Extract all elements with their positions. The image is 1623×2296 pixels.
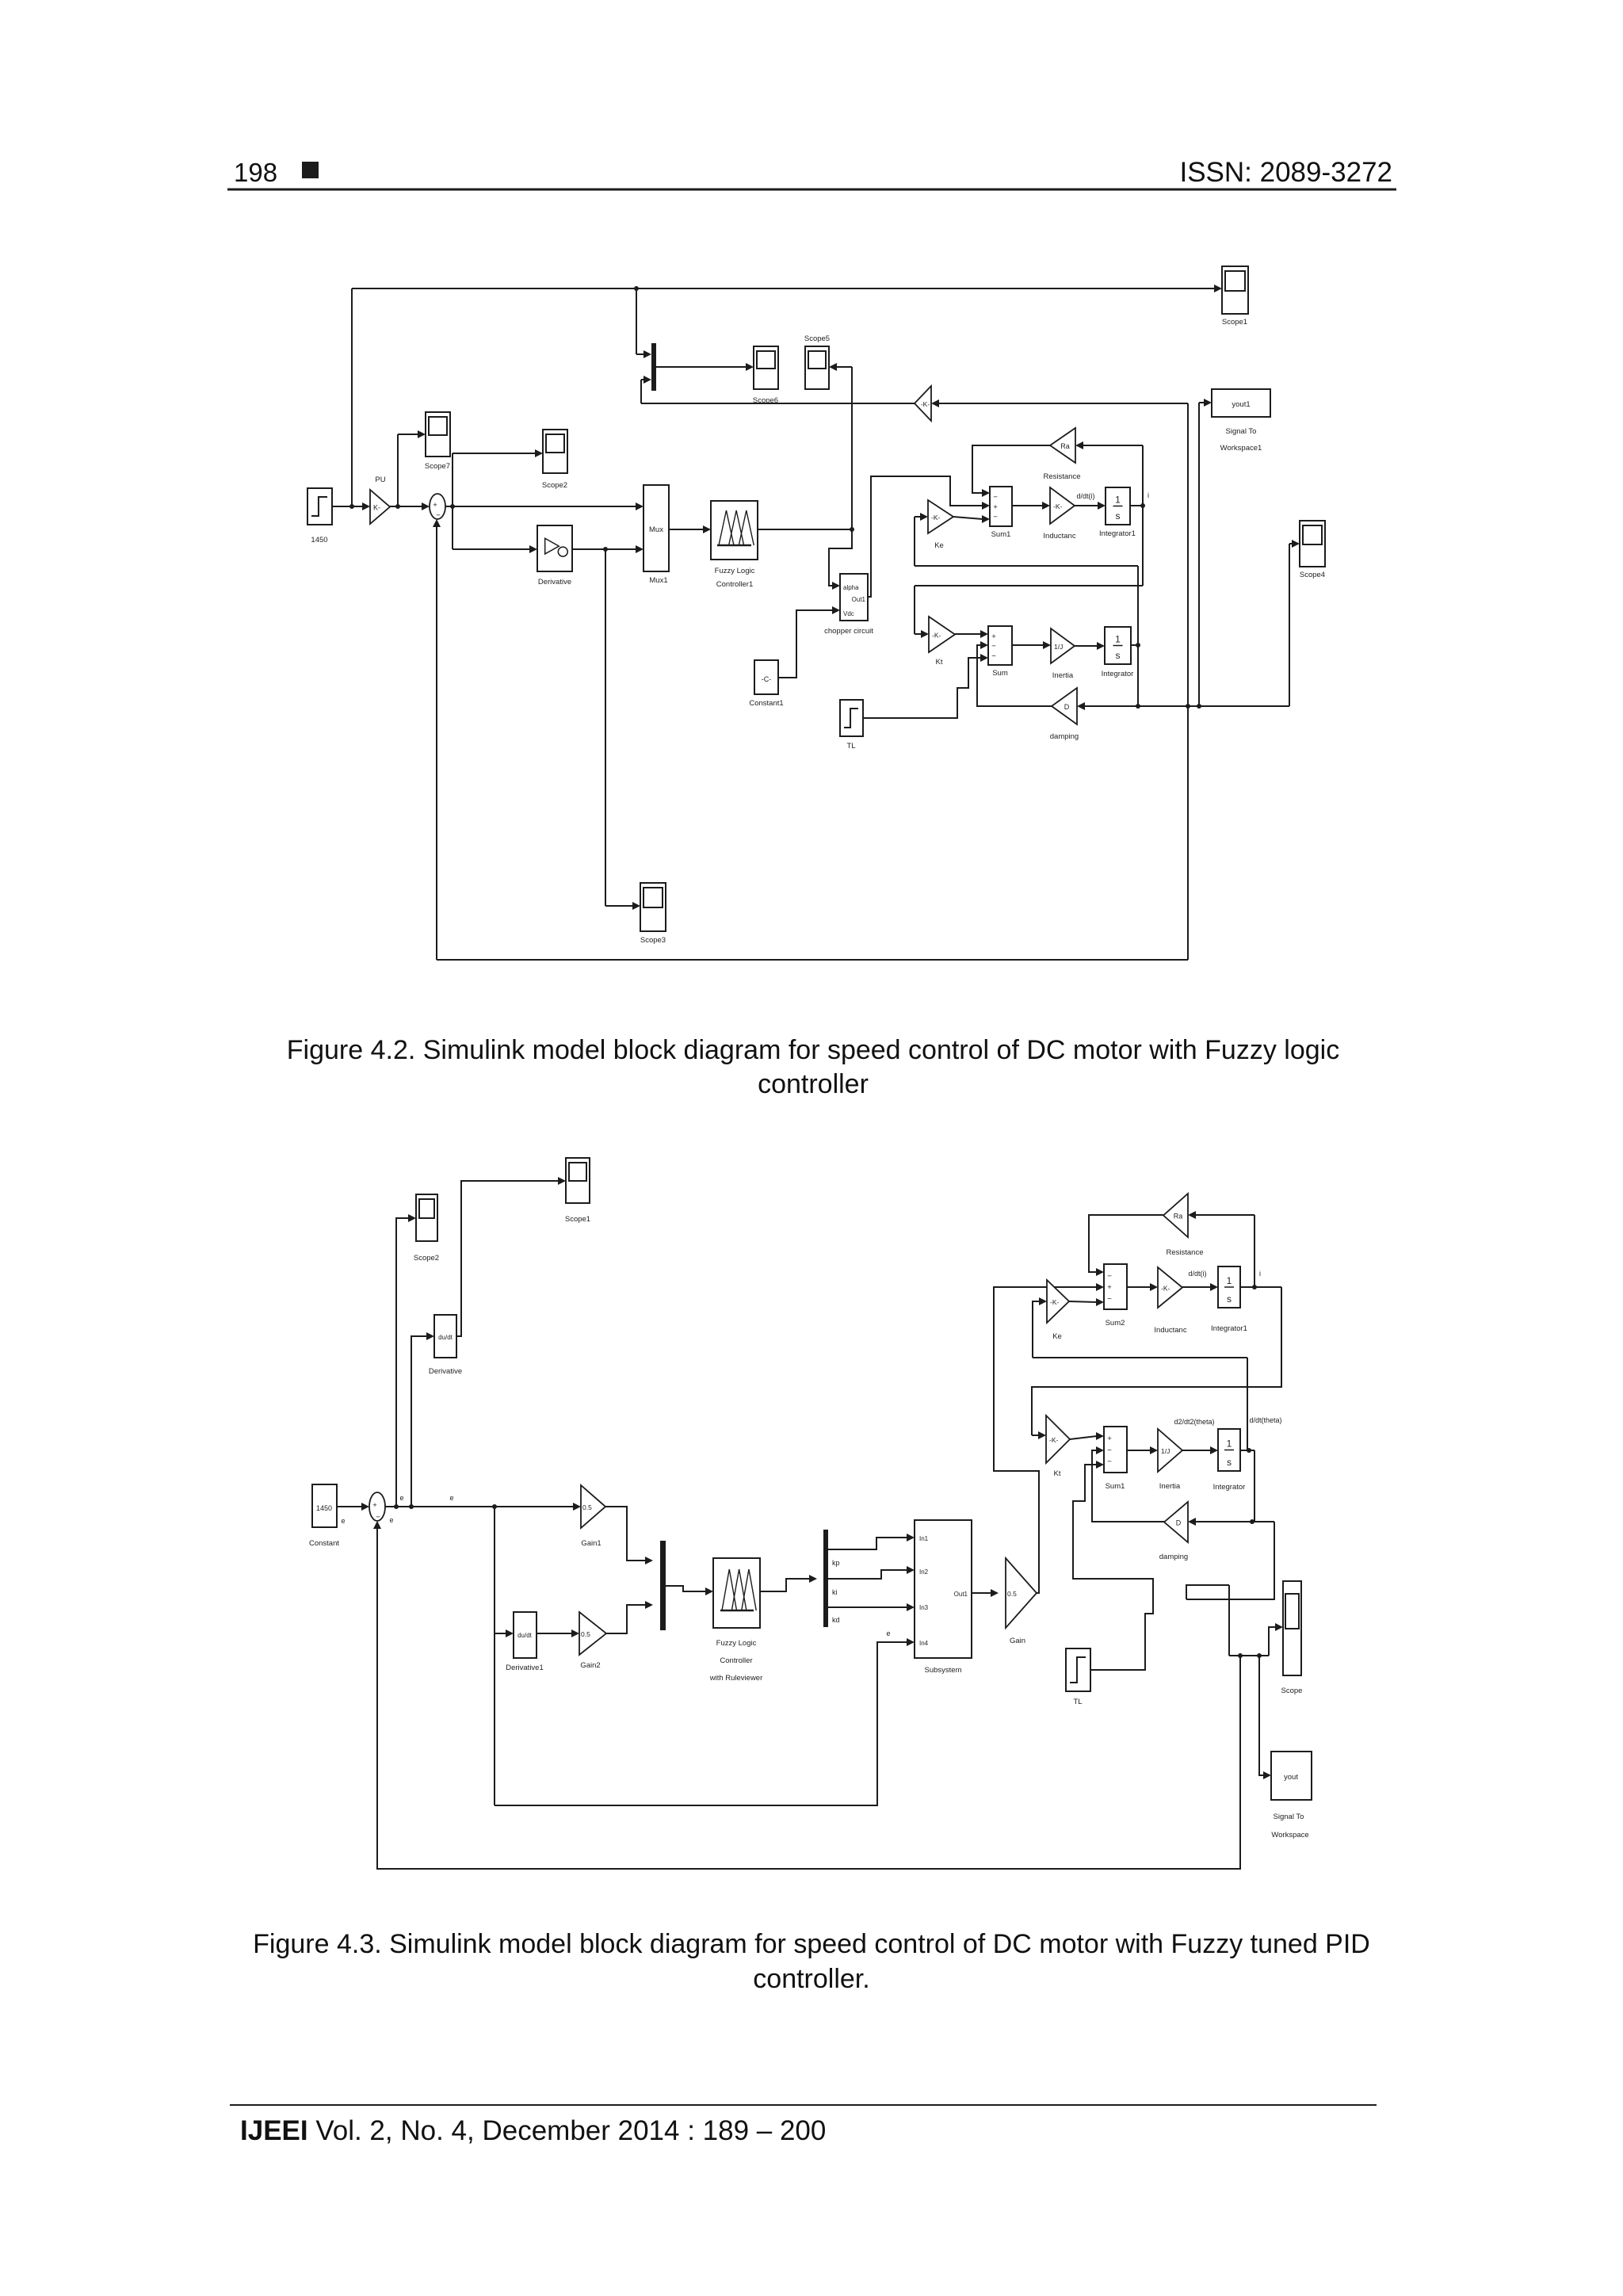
svg-text:Gain1: Gain1	[581, 1539, 601, 1548]
current riser to Ra and drop to line B	[1142, 445, 1144, 586]
svg-text:Scope5: Scope5	[804, 334, 830, 343]
block yout1 Signal To Workspace1	[1212, 389, 1270, 417]
block Integrator	[1105, 627, 1131, 664]
block Fuzzy Logic Controller1	[711, 501, 758, 560]
svg-text:+: +	[1107, 1283, 1112, 1292]
sum junction (fig2)	[369, 1492, 385, 1521]
wire Gain2 to mux input 2 (fig2)	[606, 1605, 646, 1633]
wire Integrator output to speed junction	[1131, 644, 1138, 646]
wire top rail down into mux input 1	[636, 288, 637, 354]
svg-text:Fuzzy Logic: Fuzzy Logic	[715, 567, 755, 575]
wire FLC to demux (fig2)	[760, 1579, 810, 1591]
svg-text:−: −	[1107, 1457, 1112, 1466]
svg-text:Ke: Ke	[1052, 1332, 1062, 1341]
tap up to Scope2 (fig2)	[396, 1218, 410, 1507]
wire Subsystem Out1 to Gain (fig2)	[972, 1592, 991, 1594]
svg-text:with Ruleviewer: with Ruleviewer	[709, 1674, 763, 1683]
gain PU	[370, 490, 390, 524]
wire Ra output to Sum1 input 1	[972, 445, 1050, 493]
wire Constant to sum (fig2)	[337, 1506, 361, 1507]
current riser to Ra (fig2)	[1254, 1215, 1255, 1287]
svg-text:Scope3: Scope3	[640, 936, 666, 945]
wire down to Scope3	[605, 549, 606, 906]
svg-text:1/J: 1/J	[1161, 1447, 1170, 1455]
svg-text:−: −	[1107, 1294, 1112, 1303]
block Integrator1 (fig2)	[1218, 1266, 1240, 1308]
wire Inertia to Integrator (fig2)	[1182, 1450, 1211, 1451]
svg-text:Derivative: Derivative	[429, 1367, 462, 1376]
wire Ra output to Sum2 input 1 (fig2)	[1089, 1215, 1163, 1272]
svg-text:Figure 4.2. Simulink model blo: Figure 4.2. Simulink model block diagram…	[287, 1035, 1339, 1065]
svg-text:Inductanc: Inductanc	[1043, 532, 1075, 541]
wire Derivative1 to Gain2 (fig2)	[537, 1633, 572, 1634]
svg-text:Ra: Ra	[1060, 442, 1070, 450]
svg-text:ki: ki	[832, 1588, 838, 1596]
wire Inertia to Integrator	[1075, 645, 1098, 647]
gain damping D (left pointing)	[1052, 688, 1077, 724]
scope Scope6	[754, 346, 778, 389]
svg-text:Resistance: Resistance	[1167, 1248, 1204, 1257]
scope Scope3	[640, 883, 666, 931]
block TL (fig2)	[1066, 1648, 1090, 1691]
svg-text:D: D	[1064, 703, 1070, 711]
wire Inductanc to Integrator1 (fig2)	[1182, 1286, 1211, 1288]
svg-text:-K-: -K-	[921, 400, 930, 408]
wire reference feedback up to top rail	[351, 288, 353, 506]
svg-text:+: +	[372, 1501, 377, 1510]
svg-text:du/dt: du/dt	[438, 1334, 453, 1341]
tap up to Derivative (fig2)	[411, 1336, 428, 1507]
footer rule	[230, 2104, 1377, 2106]
wire Kt to Sum input 1	[955, 633, 980, 635]
wire demux kp to In1	[828, 1538, 908, 1549]
speed riser to -K- gain rail and bottom feedback	[1187, 403, 1189, 960]
svg-text:du/dt: du/dt	[517, 1632, 533, 1639]
speed line A	[915, 565, 1138, 567]
svg-text:Workspace: Workspace	[1271, 1831, 1308, 1839]
svg-text:In1: In1	[919, 1535, 929, 1542]
svg-text:e: e	[449, 1494, 453, 1502]
svg-text:Gain2: Gain2	[580, 1661, 600, 1670]
wire PU to sum junction	[390, 506, 422, 507]
svg-text:Integrator: Integrator	[1213, 1483, 1246, 1492]
svg-text:Workspace1: Workspace1	[1220, 444, 1262, 453]
svg-text:1: 1	[1115, 634, 1121, 645]
error wire to Gain1 with tap junctions (fig2)	[385, 1506, 573, 1507]
wire into Scope5 (from right)	[837, 366, 852, 368]
flag rectangle on distribution wire (fig2)	[1186, 1585, 1229, 1599]
block TL (load torque step)	[840, 700, 863, 736]
scope Scope5	[805, 346, 829, 389]
svg-text:-K-: -K-	[931, 514, 941, 521]
sum Sum (torque sum)	[988, 626, 1012, 665]
svg-text:+: +	[1107, 1435, 1112, 1443]
svg-text:Out1: Out1	[852, 596, 866, 603]
svg-text:controller: controller	[758, 1069, 869, 1099]
wire Derivative to Scope1 (fig2)	[456, 1181, 559, 1336]
svg-text:Mux1: Mux1	[649, 576, 667, 585]
wire to Scope (fig2)	[1269, 1627, 1277, 1656]
wire Integrator output, speed junction (fig2)	[1240, 1450, 1254, 1451]
svg-text:Inductanc: Inductanc	[1154, 1326, 1186, 1335]
scope Scope2 (fig2)	[416, 1194, 437, 1241]
wire damping output to Sum input 2	[977, 645, 1052, 706]
scope Scope1	[1222, 266, 1248, 314]
svg-text:Scope2: Scope2	[414, 1254, 439, 1263]
svg-text:e: e	[886, 1629, 890, 1637]
mux thick bar (fig2)	[660, 1541, 666, 1630]
svg-text:Scope7: Scope7	[425, 462, 450, 471]
gain Ra Resistance (left pointing)	[1050, 428, 1075, 463]
wire Derivative to Mux1 with Scope3 tap junction	[572, 548, 637, 550]
speed rail wire to -K- gain output	[641, 403, 915, 404]
bottom feedback loop (fig2)	[377, 1527, 1240, 1869]
svg-text:kd: kd	[832, 1616, 840, 1624]
svg-text:Sum: Sum	[992, 669, 1008, 678]
wire Sum1 to Inertia (fig2)	[1127, 1450, 1151, 1451]
svg-text:s: s	[1227, 1293, 1232, 1305]
svg-text:-K-: -K-	[1053, 502, 1063, 510]
svg-text:chopper circuit: chopper circuit	[824, 627, 873, 636]
svg-text:−: −	[993, 513, 998, 521]
svg-text:i: i	[1148, 491, 1149, 499]
gain Ra Resistance (fig2, left pointing)	[1163, 1194, 1188, 1237]
block Subsystem	[915, 1520, 972, 1658]
svg-text:198: 198	[234, 158, 277, 187]
svg-text:Scope1: Scope1	[1222, 318, 1247, 327]
gain damping D (fig2, left pointing)	[1164, 1502, 1188, 1542]
demux thick bar (fig2)	[823, 1530, 828, 1627]
svg-text:-K-: -K-	[1049, 1436, 1059, 1444]
gain Gain2 0.5 (fig2)	[579, 1612, 606, 1655]
svg-text:Subsystem: Subsystem	[925, 1666, 962, 1675]
block Fuzzy Logic Controller with Ruleviewer	[713, 1558, 760, 1628]
current line B to Kt	[915, 585, 1143, 586]
svg-text:−: −	[991, 642, 996, 651]
svg-text:Sum1: Sum1	[991, 530, 1011, 539]
speed drop right segment to distribution (fig2)	[1186, 1522, 1274, 1599]
svg-text:Ra: Ra	[1174, 1213, 1183, 1221]
wire step to gain PU with junction	[332, 506, 362, 507]
wire TL to Sum input 3 (staircase)	[863, 658, 980, 718]
wire mux to Fuzzy Logic Controller (fig2)	[666, 1586, 707, 1591]
damping rail (speed) with junctions	[1084, 705, 1289, 707]
svg-text:PU: PU	[375, 476, 385, 484]
svg-text:Inertia: Inertia	[1159, 1482, 1181, 1491]
wire damping rail up to Scope4	[1289, 544, 1290, 706]
sum junction (speed error)	[430, 494, 445, 519]
svg-text:Sum1: Sum1	[1106, 1482, 1125, 1491]
svg-text:+: +	[993, 503, 998, 512]
svg-text:−: −	[993, 493, 998, 502]
wire current to Ra input	[1082, 445, 1143, 446]
svg-text:Out1: Out1	[954, 1591, 968, 1598]
svg-text:kp: kp	[832, 1559, 840, 1567]
wire speed tap to yout1	[1199, 402, 1205, 403]
gain Gain1 0.5 (fig2)	[581, 1485, 605, 1528]
block Derivative1 du/dt (fig2)	[514, 1612, 537, 1658]
svg-text:Scope2: Scope2	[542, 481, 567, 490]
block chopper circuit	[840, 574, 868, 621]
svg-text:e: e	[389, 1516, 393, 1524]
wire Gain up to Sum2 + input (fig2)	[994, 1287, 1097, 1593]
gain Gain 0.5 (fig2)	[1006, 1558, 1037, 1628]
svg-text:Integrator1: Integrator1	[1211, 1324, 1247, 1333]
svg-text:yout1: yout1	[1232, 400, 1250, 409]
wire Sum1 to Inductanc	[1012, 505, 1043, 506]
block Integrator1	[1106, 487, 1130, 525]
svg-text:Figure 4.3. Simulink model blo: Figure 4.3. Simulink model block diagram…	[253, 1929, 1370, 1959]
svg-text:1450: 1450	[311, 536, 327, 544]
svg-text:s: s	[1116, 650, 1121, 661]
wire mux to Scope6	[656, 366, 747, 368]
svg-text:e: e	[341, 1517, 345, 1525]
scope Scope4	[1300, 521, 1325, 567]
svg-text:K-: K-	[373, 504, 380, 512]
svg-text:-C-: -C-	[762, 675, 772, 683]
svg-text:1/J: 1/J	[1054, 643, 1063, 651]
svg-text:ISSN: 2089-3272: ISSN: 2089-3272	[1179, 157, 1392, 188]
svg-text:Kt: Kt	[936, 658, 943, 667]
svg-text:d/dt(theta): d/dt(theta)	[1249, 1416, 1281, 1424]
svg-text:Signal To: Signal To	[1226, 427, 1257, 436]
wire chopper Out1 up and to Sum1 input 2	[868, 476, 983, 597]
svg-text:-K-: -K-	[1050, 1298, 1060, 1306]
svg-text:e: e	[399, 1494, 403, 1502]
gain -K- (left pointing, display gain)	[915, 386, 931, 421]
block Constant1	[754, 660, 778, 694]
svg-text:-K-: -K-	[932, 632, 941, 640]
svg-text:Controller: Controller	[720, 1656, 752, 1665]
svg-text:In4: In4	[919, 1640, 929, 1647]
svg-text:Scope4: Scope4	[1300, 571, 1325, 579]
svg-text:d/dt(i): d/dt(i)	[1188, 1270, 1206, 1278]
wire sum output to Mux1 with tap junction	[445, 506, 637, 507]
block Derivative du/dt (fig2)	[434, 1315, 456, 1358]
svg-text:Ke: Ke	[934, 541, 944, 550]
svg-text:Constant1: Constant1	[749, 699, 783, 708]
speed riser to yout1	[1198, 403, 1200, 706]
svg-text:Sum2: Sum2	[1106, 1319, 1125, 1328]
svg-text:-K-: -K-	[1161, 1285, 1170, 1293]
wire damping output to Sum1 input 2 (fig2)	[1092, 1450, 1164, 1522]
wire speed rail into mux input 2	[640, 380, 642, 403]
svg-text:s: s	[1116, 510, 1121, 521]
wire Ke to Sum2 input 3 (fig2)	[1069, 1301, 1097, 1302]
svg-text:Vdc: Vdc	[843, 610, 854, 617]
wire FLC1 down to chopper alpha input	[829, 529, 852, 586]
svg-text:Signal To: Signal To	[1274, 1813, 1304, 1821]
wire Constant1 to chopper Vdc input	[778, 610, 832, 678]
error rail to In4 (fig2)	[495, 1642, 908, 1805]
wire Inductanc to Integrator1	[1075, 505, 1098, 506]
wire tap up to Scope7	[397, 434, 399, 506]
svg-text:yout: yout	[1284, 1773, 1298, 1782]
gain Kt (fig2)	[1046, 1415, 1070, 1463]
mux (thick bar) feeding Scope6	[651, 343, 656, 391]
distribution rail (fig2)	[1229, 1655, 1269, 1656]
svg-text:−: −	[991, 651, 996, 660]
gain Ke (fig2)	[1047, 1280, 1069, 1323]
speed riser from integrator to line A and down to damping rail	[1137, 566, 1139, 706]
gain Inertia 1/J (fig2)	[1158, 1429, 1182, 1472]
svg-text:In3: In3	[919, 1604, 929, 1611]
gain Inductanc (fig2)	[1158, 1267, 1182, 1308]
svg-text:Inertia: Inertia	[1052, 671, 1074, 680]
step source 1450	[307, 488, 332, 525]
tap wire up to Scope2 and down to Derivative	[452, 453, 453, 549]
sum Sum1	[990, 487, 1012, 526]
svg-text:−: −	[436, 511, 441, 520]
wire speed line A to Ke input	[914, 517, 915, 566]
svg-text:TL: TL	[1073, 1698, 1082, 1706]
block yout Signal To Workspace (fig2)	[1271, 1752, 1312, 1800]
svg-text:Derivative1: Derivative1	[506, 1664, 544, 1672]
svg-text:1: 1	[1227, 1438, 1232, 1450]
svg-text:Scope: Scope	[1281, 1687, 1303, 1695]
svg-text:Scope1: Scope1	[565, 1215, 590, 1224]
svg-text:1: 1	[1115, 495, 1121, 506]
gain Ke (back emf)	[928, 500, 953, 533]
svg-text:0.5: 0.5	[1007, 1590, 1017, 1598]
sum Sum1 (fig2)	[1104, 1427, 1127, 1473]
block Derivative	[537, 525, 572, 571]
scope Scope2	[543, 430, 567, 473]
bottom feedback loop of figure 4.2	[437, 959, 1188, 961]
svg-text:Constant: Constant	[309, 1539, 339, 1548]
sum Sum2 (fig2)	[1104, 1264, 1127, 1309]
svg-text:d/dt(i): d/dt(i)	[1076, 492, 1094, 500]
scope Scope1 (fig2)	[566, 1158, 590, 1203]
svg-text:Resistance: Resistance	[1044, 472, 1081, 481]
svg-text:s: s	[1227, 1457, 1232, 1468]
svg-text:Controller1: Controller1	[716, 580, 753, 589]
error tap down to Derivative1 and In4 rail (fig2)	[494, 1507, 495, 1805]
svg-text:damping: damping	[1050, 732, 1079, 741]
svg-text:D: D	[1176, 1519, 1182, 1527]
gain Inertia 1/J	[1051, 628, 1075, 663]
scope Scope (fig2, tall)	[1283, 1581, 1301, 1675]
svg-text:−: −	[1107, 1446, 1112, 1455]
damping rail (fig2)	[1194, 1521, 1274, 1522]
speed drop to damping rail (fig2)	[1254, 1450, 1255, 1522]
svg-text:1450: 1450	[316, 1504, 332, 1512]
wire Sum2 to Inductanc (fig2)	[1127, 1286, 1151, 1288]
svg-text:1: 1	[1227, 1275, 1232, 1286]
mux Mux1	[643, 485, 669, 571]
block Constant 1450 (fig2)	[312, 1484, 337, 1527]
page header: black square bullet	[302, 162, 319, 178]
wire FLC1 output to Scope5 riser junction	[758, 529, 852, 530]
svg-text:IJEEI Vol. 2, No. 4, December: IJEEI Vol. 2, No. 4, December 2014 : 189…	[240, 2115, 826, 2146]
gain Inductanc	[1050, 487, 1075, 524]
svg-text:d2/dt2(theta): d2/dt2(theta)	[1174, 1418, 1214, 1426]
svg-text:+: +	[433, 501, 437, 510]
wire Integrator1 output with current junction	[1130, 505, 1143, 506]
svg-text:In2: In2	[919, 1568, 929, 1576]
svg-text:Gain: Gain	[1010, 1637, 1025, 1645]
svg-text:Fuzzy Logic: Fuzzy Logic	[716, 1639, 757, 1648]
svg-text:−: −	[1107, 1272, 1112, 1281]
wire demux kd to In3	[828, 1606, 908, 1608]
svg-text:Derivative: Derivative	[538, 578, 571, 586]
svg-text:Integrator: Integrator	[1102, 670, 1134, 678]
scope Scope7	[426, 412, 450, 457]
page header rule	[227, 189, 1396, 191]
gain Kt (torque constant)	[929, 617, 955, 652]
svg-text:Kt: Kt	[1054, 1469, 1061, 1478]
wire TL to Sum1 input 3 (staircase, fig2)	[1073, 1465, 1153, 1670]
wire Kt to Sum1 input 1 (fig2)	[1070, 1436, 1097, 1439]
svg-text:−: −	[376, 1513, 380, 1522]
wire to yout (fig2)	[1259, 1656, 1265, 1775]
svg-text:0.5: 0.5	[582, 1503, 592, 1511]
svg-text:TL: TL	[846, 742, 855, 751]
svg-text:Integrator1: Integrator1	[1099, 529, 1136, 538]
wire Mux1 to Fuzzy Logic Controller1	[669, 529, 704, 530]
svg-text:alpha: alpha	[843, 584, 859, 591]
wire Integrator1 output, i junction (fig2)	[1240, 1286, 1281, 1288]
wire Sum to Inertia	[1012, 644, 1043, 646]
top rail wire to Scope1	[352, 288, 1215, 289]
wire demux ki to In2	[828, 1570, 908, 1579]
wire Gain1 to mux input 1 (fig2)	[605, 1507, 646, 1561]
svg-text:damping: damping	[1159, 1553, 1188, 1561]
svg-text:i: i	[1259, 1270, 1261, 1278]
wire speed to Ke input (fig2)	[1033, 1301, 1040, 1358]
svg-text:Mux: Mux	[649, 525, 663, 534]
svg-text:0.5: 0.5	[581, 1630, 590, 1638]
wire current to Ra input (fig2)	[1194, 1214, 1254, 1216]
wire speed tap into -K- gain	[939, 403, 1188, 404]
wire Ke output to Sum1 input 3	[953, 517, 983, 519]
svg-text:controller.: controller.	[753, 1964, 869, 1994]
current drop and line to Kt (fig2)	[1032, 1287, 1281, 1435]
speed riser up to line to Ke (fig2)	[1247, 1358, 1248, 1450]
svg-text:+: +	[991, 632, 996, 641]
block Integrator (fig2)	[1218, 1429, 1240, 1471]
